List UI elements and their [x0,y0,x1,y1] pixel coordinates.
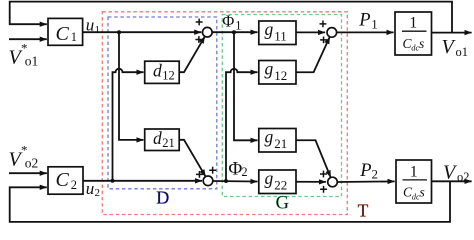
summing junction sum1 [203,27,213,37]
block C1 [48,18,83,45]
svg-text:g: g [265,59,274,79]
svg-text:11: 11 [274,28,287,43]
wire Vo2 output [432,180,472,182]
block integrator 1/Cdc s (bottom) [396,160,432,203]
plus sum1 upper [196,19,203,26]
svg-text:s: s [420,185,425,200]
svg-text:21: 21 [274,136,287,151]
block g12 [259,61,296,85]
junction node Phi1 branch [232,30,236,34]
wire u2 branch to d12 (hop over u1 branch) [113,69,144,181]
label u2 [86,179,100,199]
svg-text:1: 1 [235,19,241,33]
svg-text:u: u [86,179,95,198]
wire Vo1 output [432,32,472,34]
svg-text:T: T [358,200,369,220]
wire bottom feedback Vo2 to C2 [10,181,450,222]
label Phi1 [222,11,241,32]
box D (blue dashed) [108,17,217,189]
svg-text:P: P [359,161,371,181]
svg-text:1: 1 [71,30,77,44]
plus signs [195,19,327,193]
summing junction sum2 [203,176,213,186]
label g12 [265,59,288,83]
plus sum4 lower [320,186,327,193]
svg-text:1: 1 [409,15,417,32]
wire P1 to integrator1 [337,31,394,33]
plus sum3 lower [320,37,327,44]
plus sum4 upper [320,171,327,178]
plus sum2 upper [209,167,216,174]
label P1 [358,11,377,32]
label g22 [265,168,288,192]
svg-text:d: d [153,128,162,148]
svg-text:V: V [443,161,458,183]
wire g22 out to sum4 [296,181,326,183]
label Phi2 [228,158,247,179]
plus sum2 left [196,171,203,178]
junction node u2 branch [111,179,115,183]
svg-text:2: 2 [372,167,379,182]
svg-text:1: 1 [410,163,418,180]
block g11 [259,21,296,45]
wire top feedback Vo1 to C1 [10,2,452,33]
wire d21 out to sum2 [179,140,205,177]
label u1 [86,16,100,36]
svg-text:g: g [265,19,274,39]
label Vo2 output [443,161,470,184]
wire u2 [83,180,202,182]
junction node u1 branch [117,30,121,34]
label C2 [56,169,77,192]
box G (green dashed) [222,15,341,197]
wire g11 out to sum3 [296,31,325,33]
wire P2 to integrator2 [337,180,394,183]
label Vo2* reference input [9,143,39,171]
wire u1 branch to d21 [119,32,144,140]
summing junction sum3 [327,28,337,38]
block integrator 1/Cdc s (top) [395,12,432,55]
plus sum3 upper [320,21,327,28]
label d21 [153,128,175,150]
svg-text:2: 2 [95,187,101,199]
svg-text:d: d [153,61,162,81]
label Vo1* reference input [9,41,39,69]
wire Phi2 to g22 [213,180,258,183]
block g22 [259,170,296,194]
wire Phi2 branch to g12 (hop over Phi1 branch) [226,69,258,181]
svg-text:u: u [86,16,95,35]
svg-text:1: 1 [95,24,101,36]
svg-text:o1: o1 [25,54,39,69]
wire u1 [83,31,202,33]
svg-text:2: 2 [241,165,247,179]
svg-text:1: 1 [371,17,378,32]
label g21 [265,127,288,151]
svg-text:s: s [419,36,424,51]
svg-text:21: 21 [162,136,175,150]
wire Vo1* input [9,38,47,40]
svg-text:D: D [156,188,169,208]
label P2 [359,161,378,182]
label d12 [153,61,175,83]
plus sum1 lower [195,36,202,43]
svg-text:C: C [56,23,70,45]
svg-text:o1: o1 [456,45,469,59]
summing junction sum4 [328,177,338,187]
wire Phi1 to g11 [212,31,257,33]
block g21 [259,129,296,153]
label 1/Cdcs integrator 1 [402,15,427,53]
box T (red dashed) [102,12,347,215]
svg-text:G: G [276,193,289,213]
junction node Phi2 branch [224,179,228,183]
label 1/Cdcs integrator 2 [403,163,428,201]
svg-text:12: 12 [274,68,287,83]
svg-text:Φ: Φ [222,11,234,30]
svg-text:V: V [442,36,457,58]
svg-text:12: 12 [162,69,175,83]
svg-text:22: 22 [274,177,287,192]
block C2 [48,167,83,194]
wire g21 out to sum4 [296,140,331,177]
label C1 [56,23,77,45]
svg-text:2: 2 [71,178,77,192]
wire g12 out to sum3 [296,37,330,72]
svg-text:o2: o2 [457,170,470,184]
wire Vo2* input [9,172,47,174]
svg-text:P: P [358,11,370,31]
label g11 [265,19,287,43]
label Vo1 output [442,36,469,59]
svg-text:g: g [265,127,274,147]
svg-text:g: g [265,168,274,188]
block d12 [145,61,180,83]
svg-text:C: C [56,169,70,191]
wire d12 out to sum1 [179,36,205,72]
block d21 [145,129,180,151]
wire Phi1 branch to g21 [234,32,258,140]
svg-text:o2: o2 [25,156,39,171]
svg-text:Φ: Φ [228,158,242,179]
